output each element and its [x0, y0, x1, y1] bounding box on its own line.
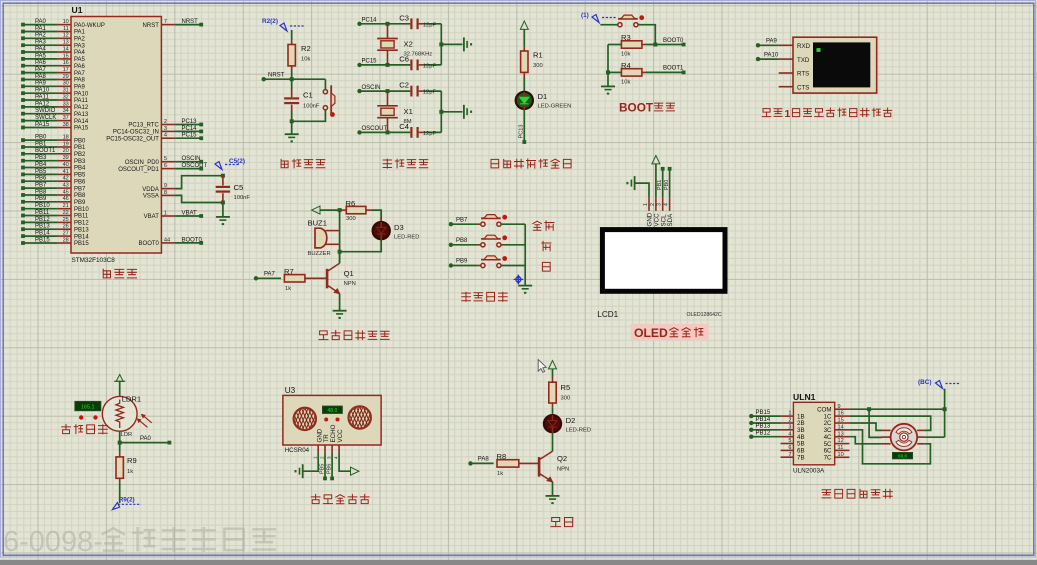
resistor R6 300 — [340, 199, 372, 222]
wire BOOT1 net — [646, 66, 686, 75]
svg-text:SWCLK: SWCLK — [35, 115, 56, 121]
svg-text:PA5: PA5 — [74, 57, 86, 63]
U1 pin 43 (PB7) — [21, 183, 86, 193]
U1 pin 46 (PB9) — [21, 196, 86, 206]
svg-text:PB14: PB14 — [35, 231, 50, 237]
svg-text:PA7: PA7 — [264, 272, 276, 278]
U1 pin 1 (VBAT) — [144, 210, 203, 220]
svg-text:PB6: PB6 — [327, 464, 333, 474]
svg-text:43: 43 — [63, 183, 69, 189]
svg-text:PB0: PB0 — [35, 135, 47, 141]
svg-text:12pF: 12pF — [423, 90, 437, 96]
node C1/button bottom junction — [290, 119, 294, 123]
svg-text:3: 3 — [657, 203, 663, 206]
ground (X1 block, rotated) — [463, 105, 465, 119]
power symbol (lamp) — [549, 361, 557, 369]
wire power to LDR — [119, 381, 121, 396]
wire X2 block top row — [357, 18, 410, 26]
svg-text:6: 6 — [788, 445, 791, 451]
svg-text:PB13: PB13 — [35, 224, 50, 230]
svg-text:OSCIN: OSCIN — [182, 156, 201, 162]
svg-text:VBAT: VBAT — [182, 210, 198, 216]
svg-text:40: 40 — [63, 162, 69, 168]
wire to ground (BOOT) — [607, 72, 609, 86]
svg-text:PC14: PC14 — [182, 126, 198, 132]
svg-text:11: 11 — [838, 445, 844, 451]
svg-text:LED-GREEN: LED-GREEN — [538, 104, 572, 110]
U1 pin 41 (PB5) — [21, 169, 86, 179]
svg-text:10k: 10k — [621, 80, 630, 86]
svg-text:OSCOUT_PD1: OSCOUT_PD1 — [118, 167, 159, 173]
wire power to R1 — [523, 29, 525, 46]
svg-text:31: 31 — [63, 88, 69, 94]
wire R9 bottom — [119, 482, 121, 503]
wire 3C to motor — [849, 430, 930, 464]
svg-text:18: 18 — [63, 135, 69, 141]
wire PB9 to key — [449, 259, 478, 268]
ground (X2 block, rotated) — [463, 37, 465, 51]
U1 pin 38 (PA15) — [21, 122, 89, 132]
svg-text:PB12: PB12 — [74, 221, 89, 227]
ground (reset circuit) — [285, 133, 299, 135]
wire D3 to collector node — [338, 239, 382, 253]
title: crystal circuit (Chinese) — [383, 159, 392, 168]
svg-text:VSSA: VSSA — [143, 194, 159, 200]
power symbol (alarm, left arrow) — [312, 206, 320, 214]
svg-text:PA9: PA9 — [766, 39, 778, 45]
svg-text:3: 3 — [164, 126, 167, 132]
svg-text:R2(2): R2(2) — [262, 18, 278, 25]
svg-text:8M: 8M — [404, 119, 412, 125]
svg-text:1: 1 — [643, 203, 649, 206]
capacitor C5 100nF — [216, 176, 251, 203]
op-amp U1 microcontroller STM32F103C8 body — [71, 5, 161, 264]
svg-text:PA5: PA5 — [35, 53, 47, 59]
svg-text:R6: R6 — [346, 199, 356, 208]
svg-text:2: 2 — [650, 203, 656, 206]
power symbol (LDR) — [114, 375, 125, 382]
svg-text:PC13: PC13 — [182, 119, 198, 125]
wire GND pin — [635, 183, 649, 197]
svg-text:41: 41 — [63, 169, 69, 175]
ULN1 pin 1 (1B) — [749, 410, 804, 420]
svg-text:4: 4 — [788, 431, 791, 437]
svg-text:PA11: PA11 — [35, 94, 49, 100]
svg-text:PB6: PB6 — [74, 179, 86, 185]
svg-text:ULN1: ULN1 — [793, 392, 816, 402]
svg-text:PA3: PA3 — [35, 40, 47, 46]
U1 pin 20 (BOOT1) — [21, 148, 86, 158]
resistor R9 1k — [116, 443, 137, 483]
ULN1 pin 5 (5B) — [781, 438, 805, 448]
svg-text:PB11: PB11 — [35, 210, 50, 216]
svg-text:STM32F103C8: STM32F103C8 — [72, 257, 116, 264]
ULN1 pin 11 (6C) — [824, 445, 850, 455]
wire D2 to Q2 collector — [552, 433, 554, 452]
svg-text:R2: R2 — [301, 44, 311, 53]
svg-text:1: 1 — [313, 456, 318, 459]
title: sound-light alarm circuit (Chinese) — [319, 331, 328, 340]
svg-text:Q2: Q2 — [557, 454, 567, 463]
ULN1 pin 12 (5C) — [824, 438, 850, 448]
capacitor C1 100nF — [284, 79, 320, 121]
svg-text:BUZ1: BUZ1 — [308, 219, 327, 228]
svg-text:20: 20 — [63, 148, 69, 154]
svg-text:LDR: LDR — [121, 432, 133, 438]
svg-text:PA8: PA8 — [35, 74, 47, 80]
svg-text:C5: C5 — [234, 183, 244, 192]
svg-text:PB0: PB0 — [664, 180, 670, 190]
svg-text:(BC): (BC) — [918, 379, 932, 386]
svg-text:PA3: PA3 — [74, 43, 86, 49]
wire 1C to motor — [849, 416, 930, 430]
svg-text:9: 9 — [164, 183, 167, 189]
svg-text:R4: R4 — [621, 61, 631, 70]
push button (reset), rotated — [292, 79, 335, 121]
U1 pin 2 (PC13) — [128, 119, 203, 129]
svg-text:PB12: PB12 — [756, 431, 771, 437]
svg-text:34: 34 — [63, 108, 69, 114]
svg-text:LDR1: LDR1 — [122, 395, 141, 404]
svg-text:NRST: NRST — [182, 19, 199, 25]
U1 pin 44 (BOOT0) — [139, 237, 204, 247]
svg-text:RTS: RTS — [797, 71, 809, 78]
U1 pin 40 (PB4) — [21, 162, 86, 172]
watermark text — [3, 526, 275, 558]
svg-text:R1: R1 — [533, 51, 543, 60]
svg-text:PA0: PA0 — [35, 19, 47, 25]
svg-text:165.1: 165.1 — [81, 405, 95, 411]
svg-text:CTS: CTS — [797, 84, 809, 91]
svg-text:PA7: PA7 — [74, 71, 86, 77]
net label R9(2) blue flag — [112, 497, 141, 510]
U1 pin 37 (SWCLK) — [21, 115, 89, 125]
svg-text:16: 16 — [63, 60, 69, 66]
svg-text:PB14: PB14 — [756, 417, 771, 423]
svg-text:R9(2): R9(2) — [119, 497, 135, 504]
svg-text:9: 9 — [838, 404, 841, 410]
title: BOOT circuit — [619, 101, 654, 115]
svg-text:PA0: PA0 — [140, 436, 152, 442]
svg-text:D1: D1 — [538, 92, 548, 101]
wire R5 to D2 — [552, 407, 554, 413]
svg-text:PB8: PB8 — [456, 238, 468, 244]
svg-text:12: 12 — [63, 33, 69, 39]
svg-text:46: 46 — [63, 196, 69, 202]
resistor R2 10k — [288, 40, 311, 70]
ground (BOOT circuit) — [601, 85, 615, 87]
svg-text:30: 30 — [63, 81, 69, 87]
svg-text:5: 5 — [164, 156, 167, 162]
svg-text:10: 10 — [63, 19, 69, 25]
U1 pin 3 (PC14) — [113, 126, 203, 136]
U3 pins — [313, 445, 340, 459]
svg-text:1k: 1k — [285, 286, 291, 292]
U1 pin 31 (PA10) — [21, 88, 89, 98]
svg-text:NRST: NRST — [268, 72, 285, 78]
crystal X1 8M — [377, 91, 413, 132]
ULN1 pin 14 (3C) — [824, 424, 850, 434]
svg-text:1k: 1k — [127, 469, 133, 475]
U1 pin 15 (PA5) — [21, 53, 85, 63]
U1 pin 42 (PB6) — [21, 176, 86, 186]
title: light adjust (Chinese) — [62, 424, 71, 433]
transistor Q1 NPN — [327, 252, 356, 294]
svg-text:PA9: PA9 — [35, 81, 47, 87]
wire R3-R4 left bus — [606, 45, 610, 75]
U1 pin 25 (PB12) — [21, 217, 89, 227]
svg-text:PB8: PB8 — [35, 189, 47, 195]
svg-text:BOOT1: BOOT1 — [663, 66, 684, 72]
svg-text:R7: R7 — [284, 267, 294, 276]
ground (C5) — [216, 216, 230, 218]
power symbol (OLED VCC) — [652, 156, 660, 164]
wire crystal right bus — [439, 91, 462, 132]
wire R2 top — [291, 30, 293, 40]
U1 pin 30 (PA9) — [21, 81, 85, 91]
wire 4C to motor (bottom loop) — [849, 437, 882, 444]
svg-text:(1): (1) — [581, 12, 589, 19]
svg-text:LED-RED: LED-RED — [566, 428, 591, 434]
svg-text:HCSR04: HCSR04 — [285, 447, 310, 454]
resistor R7 1k — [254, 267, 327, 292]
svg-text:3: 3 — [327, 456, 332, 459]
svg-text:PB7: PB7 — [74, 186, 86, 192]
svg-text:PB5: PB5 — [74, 173, 86, 179]
svg-text:PB9: PB9 — [35, 196, 47, 202]
svg-text:PB0: PB0 — [74, 138, 86, 144]
svg-text:D3: D3 — [394, 223, 404, 232]
power symbol (indicator) — [520, 21, 528, 29]
svg-text:PB14: PB14 — [74, 234, 89, 240]
ground (OLED, rotated left) — [634, 176, 636, 190]
svg-text:PA10: PA10 — [74, 91, 89, 97]
svg-text:VBAT: VBAT — [144, 214, 160, 220]
svg-text:PA11: PA11 — [74, 98, 88, 104]
svg-text:PB1: PB1 — [657, 180, 663, 190]
svg-text:PB13: PB13 — [74, 227, 89, 233]
svg-text:PB6: PB6 — [35, 176, 47, 182]
svg-text:PB5: PB5 — [35, 169, 47, 175]
svg-text:PB7: PB7 — [456, 217, 468, 223]
svg-text:PC15: PC15 — [362, 59, 378, 65]
label: set (Chinese) — [533, 221, 542, 230]
wire C5 to ground — [222, 203, 224, 217]
wire U3 VCC to power — [339, 454, 350, 472]
svg-text:2: 2 — [164, 119, 167, 125]
svg-text:3: 3 — [788, 424, 791, 430]
resistor R5 300 — [549, 378, 570, 407]
wire VDDA to C5 top node — [175, 176, 223, 189]
node C5 top junction — [221, 174, 225, 178]
svg-text:37: 37 — [63, 115, 69, 121]
svg-text:PA10: PA10 — [764, 52, 779, 58]
svg-text:PB10: PB10 — [74, 207, 89, 213]
svg-text:8: 8 — [164, 190, 167, 196]
wire PB7 to key — [449, 217, 478, 226]
U1 pin 10 (PA0) — [21, 19, 105, 29]
U1 pin 6 (OSCOUT) — [118, 163, 207, 173]
ULN1 pin 7 (7B) — [781, 452, 805, 462]
svg-text:U1: U1 — [72, 5, 83, 15]
svg-text:32.768KHz: 32.768KHz — [404, 51, 433, 57]
transistor Q2 NPN — [539, 451, 569, 482]
svg-text:PB11: PB11 — [74, 214, 89, 220]
ultrasonic module U3 HCSR04 — [282, 386, 383, 454]
svg-text:7: 7 — [788, 452, 791, 458]
svg-text:21: 21 — [63, 203, 69, 209]
svg-text:12: 12 — [838, 438, 844, 444]
svg-text:48.0: 48.0 — [327, 408, 337, 414]
svg-text:12pF: 12pF — [423, 22, 437, 28]
svg-text:PB1: PB1 — [74, 145, 86, 151]
svg-text:X1: X1 — [404, 107, 413, 116]
svg-text:NPN: NPN — [344, 281, 356, 287]
svg-text:PB15: PB15 — [35, 237, 50, 243]
node C5 bottom junction — [221, 201, 225, 205]
U1 pin 21 (PB10) — [21, 203, 89, 213]
LED D3 LED-RED — [373, 217, 420, 241]
ULN1 pin 9 (COM) — [817, 404, 849, 414]
svg-text:PC14: PC14 — [362, 18, 378, 24]
svg-text:PB10: PB10 — [35, 203, 50, 209]
push button (PB8 key) — [478, 235, 525, 247]
U1 pin 7 (NRST) — [143, 19, 204, 29]
U1 pin 12 (PA2) — [21, 33, 85, 43]
U1 pin 16 (PA6) — [21, 60, 85, 70]
svg-text:R8: R8 — [497, 452, 507, 461]
wire emitter to ground (lamp) — [552, 482, 554, 496]
svg-text:45: 45 — [63, 189, 69, 195]
wire SCL (PB1) — [657, 167, 664, 197]
svg-text:4: 4 — [334, 456, 339, 459]
svg-text:PB9: PB9 — [74, 200, 86, 206]
push button (BOOT select) — [618, 18, 638, 20]
svg-text:PB9: PB9 — [456, 259, 468, 265]
svg-text:PA10: PA10 — [35, 88, 50, 94]
LED D1 LED-GREEN (lit) — [516, 92, 572, 110]
svg-text:1: 1 — [788, 411, 791, 417]
U1 pin 28 (PB15) — [21, 237, 89, 247]
svg-text:14: 14 — [63, 46, 69, 52]
wire VCC pin — [655, 164, 657, 197]
svg-text:PA6: PA6 — [35, 60, 47, 66]
ground (ultrasonic, rotated left) — [302, 464, 304, 478]
wire power to R6 node — [320, 208, 342, 212]
svg-text:R5: R5 — [561, 383, 571, 392]
U1 pin 45 (PB8) — [21, 189, 86, 199]
svg-text:13: 13 — [838, 431, 844, 437]
svg-text:100nF: 100nF — [303, 104, 320, 110]
U1 pin 39 (PB3) — [21, 155, 86, 165]
wire D1 to PC13 node — [519, 110, 527, 144]
crystal X2 32.768KHz — [377, 24, 432, 65]
svg-text:PA2: PA2 — [74, 37, 86, 43]
svg-text:15: 15 — [63, 53, 69, 59]
capacitor C2 12pF — [399, 81, 441, 97]
svg-text:TXD: TXD — [797, 57, 810, 64]
svg-text:PA15: PA15 — [74, 126, 89, 132]
virtual terminal (serial window) — [779, 37, 877, 93]
svg-text:C3: C3 — [399, 13, 409, 22]
svg-text:R3: R3 — [621, 33, 631, 42]
label: minus (Chinese) — [542, 262, 550, 271]
svg-text:PA7: PA7 — [35, 67, 47, 73]
U1 pin 8 (VSSA) — [143, 190, 175, 200]
wire emitter to ground (alarm) — [339, 294, 341, 311]
wire U3 GND — [303, 454, 319, 472]
title: program running indicator (Chinese) — [491, 159, 499, 168]
U1 pin 29 (PA8) — [21, 74, 85, 84]
svg-text:ULN2003A: ULN2003A — [793, 468, 825, 475]
svg-text:13: 13 — [63, 40, 69, 46]
ULN1 pin 13 (4C) — [824, 431, 850, 441]
svg-text:PB1: PB1 — [35, 141, 47, 147]
U1 pin 5 (OSCIN) — [125, 156, 203, 166]
svg-text:OSCIN_PD0: OSCIN_PD0 — [125, 160, 160, 166]
ULN1 pin 15 (2C) — [824, 418, 850, 428]
svg-text:PB2: PB2 — [74, 152, 86, 158]
svg-text:PA1: PA1 — [74, 30, 86, 36]
svg-text:25: 25 — [63, 217, 69, 223]
svg-text:7C: 7C — [824, 455, 832, 462]
svg-text:PA4: PA4 — [35, 46, 47, 52]
svg-text:29: 29 — [63, 74, 69, 80]
motor speed display — [893, 453, 913, 459]
wire X1 block bottom row — [357, 126, 410, 134]
svg-text:27: 27 — [63, 231, 69, 237]
svg-text:39: 39 — [63, 155, 69, 161]
svg-text:RXD: RXD — [797, 43, 811, 50]
svg-text:100nF: 100nF — [234, 195, 251, 201]
U1 pin 11 (PA1) — [21, 26, 85, 36]
wire VSSA to C5 bottom node — [175, 195, 223, 202]
svg-text:PC15-OSC32_OUT: PC15-OSC32_OUT — [106, 136, 159, 142]
ULN1 pin 16 (1C) — [824, 411, 850, 421]
svg-text:LCD1: LCD1 — [597, 310, 618, 319]
resistor R3 10k — [608, 33, 646, 58]
wire R1 to D1 — [523, 77, 525, 92]
capacitor C6 12pF — [399, 55, 441, 71]
svg-text:D2: D2 — [566, 416, 576, 425]
title: ultrasonic module (Chinese) — [311, 494, 320, 503]
svg-text:2: 2 — [788, 418, 791, 424]
svg-text:PA6: PA6 — [74, 64, 86, 70]
LDR1 light sensor — [102, 395, 151, 439]
LDR brightness display — [75, 401, 101, 410]
svg-text:OLED: OLED — [634, 326, 668, 340]
title: desk lamp (Chinese) — [551, 518, 561, 527]
svg-text:PB15: PB15 — [74, 241, 89, 247]
svg-text:OLED128642C: OLED128642C — [687, 312, 722, 318]
svg-text:17: 17 — [63, 67, 69, 73]
svg-text:PA0-WKUP: PA0-WKUP — [74, 23, 105, 29]
push button (PB7 key) — [478, 215, 525, 227]
svg-text:6-0098-: 6-0098- — [3, 526, 103, 558]
wire COM net — [849, 389, 946, 438]
ULN1 pin 10 (7C) — [824, 452, 850, 462]
wire alarm collector bus — [339, 210, 341, 263]
svg-text:R9: R9 — [127, 456, 137, 465]
svg-text:19: 19 — [63, 141, 69, 147]
svg-text:12pF: 12pF — [423, 64, 437, 70]
label: plus (Chinese) — [542, 241, 551, 250]
wire BOOT0 net — [646, 38, 686, 47]
svg-text:26: 26 — [63, 224, 69, 230]
svg-text:PA2: PA2 — [35, 33, 47, 39]
svg-text:14: 14 — [838, 424, 844, 430]
U1 pin 34 (SWDIO) — [21, 108, 89, 118]
